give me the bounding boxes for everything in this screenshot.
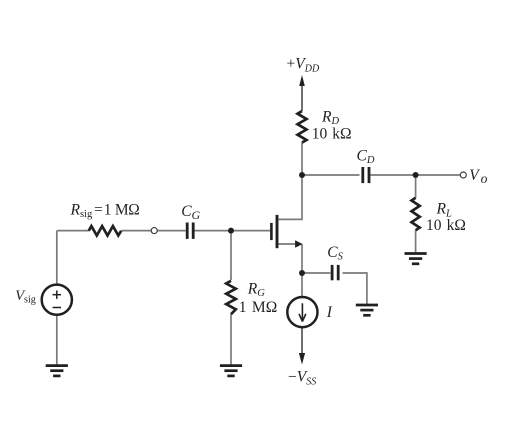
svg-text:Rsig: Rsig	[70, 201, 93, 220]
svg-text:CD: CD	[357, 147, 375, 166]
svg-text:Vo: Vo	[469, 167, 487, 186]
svg-text:CG: CG	[181, 203, 200, 222]
svg-text:−VSS: −VSS	[288, 369, 316, 388]
svg-text:I: I	[326, 304, 333, 321]
svg-text:RG: RG	[247, 281, 265, 300]
svg-text:+VDD: +VDD	[287, 56, 320, 75]
svg-text:Vsig: Vsig	[15, 288, 36, 305]
svg-text:CS: CS	[327, 244, 343, 262]
svg-text:10 kΩ: 10 kΩ	[312, 125, 352, 142]
svg-text:=: =	[94, 201, 103, 218]
svg-text:RD: RD	[321, 108, 339, 127]
svg-text:1 MΩ: 1 MΩ	[104, 201, 140, 218]
svg-text:1 MΩ: 1 MΩ	[239, 299, 278, 316]
svg-text:10 kΩ: 10 kΩ	[426, 217, 466, 234]
